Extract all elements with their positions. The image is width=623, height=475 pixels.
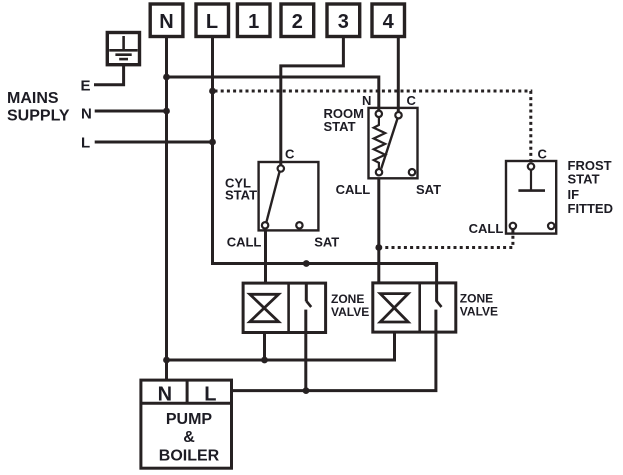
junction dot left valve switch to pump live xyxy=(303,387,310,394)
svg-text:MAINS: MAINS xyxy=(7,90,59,107)
frost stat U3 xyxy=(506,161,556,234)
label CYL STAT xyxy=(225,175,257,202)
junction dot left valve motor return xyxy=(261,357,268,364)
left zone valve V1 xyxy=(243,283,326,332)
cyl stat U1 xyxy=(259,162,319,230)
wire left valve motor to neutral return xyxy=(263,333,266,361)
label ROOM STAT xyxy=(324,106,364,134)
svg-text:SAT: SAT xyxy=(314,234,339,249)
svg-text:BOILER: BOILER xyxy=(159,447,220,464)
wire terminal 3 to cyl stat C xyxy=(281,37,344,166)
wire live from terminal L down and across to right zone valve switch xyxy=(213,37,437,302)
junction dot mains L xyxy=(209,139,216,146)
junction dot live to frost dotted xyxy=(209,88,216,95)
right zone valve V2 xyxy=(373,283,456,332)
svg-text:STAT: STAT xyxy=(568,172,600,187)
svg-text:CALL: CALL xyxy=(336,182,371,197)
wire right valve motor to neutral return xyxy=(167,332,395,360)
wire neutral from terminal N down to pump xyxy=(165,37,168,382)
terminal 2 box xyxy=(281,4,314,37)
svg-text:C: C xyxy=(407,93,417,108)
svg-text:C: C xyxy=(538,147,548,162)
svg-text:SUPPLY: SUPPLY xyxy=(7,108,70,125)
svg-text:PUMP: PUMP xyxy=(166,411,213,428)
junction dot neutral to room stat branch xyxy=(163,74,170,81)
svg-text:FITTED: FITTED xyxy=(568,201,614,216)
wire mains N xyxy=(95,110,167,113)
terminal 4 box xyxy=(372,4,405,37)
junction dot mains N xyxy=(163,108,170,115)
terminal 3 box xyxy=(327,4,360,37)
svg-text:N: N xyxy=(159,11,173,33)
svg-text:C: C xyxy=(285,147,295,162)
svg-text:2: 2 xyxy=(292,11,303,33)
svg-text:E: E xyxy=(81,78,91,95)
svg-text:STAT: STAT xyxy=(324,119,356,134)
wire room stat CALL to right zone valve motor xyxy=(377,178,380,283)
svg-text:VALVE: VALVE xyxy=(331,305,369,319)
svg-text:1: 1 xyxy=(248,11,259,33)
terminal N box xyxy=(150,4,183,37)
room stat U2 xyxy=(369,108,418,178)
terminal 1 box xyxy=(237,4,270,37)
svg-text:N: N xyxy=(81,106,92,123)
svg-text:N: N xyxy=(158,384,172,406)
label ZONE VALVE left xyxy=(331,292,369,319)
wire right valve switch down to pump live line xyxy=(232,332,436,391)
dotted wire live to frost stat C xyxy=(215,91,531,163)
earth symbol box xyxy=(107,33,139,65)
wire neutral branch to room stat N xyxy=(167,77,379,111)
junction dot frost call joins room call wire xyxy=(375,244,382,251)
svg-text:VALVE: VALVE xyxy=(460,304,498,318)
svg-text:L: L xyxy=(81,135,90,152)
junction dot live bus to left valve switch xyxy=(303,260,310,267)
label PUMP & BOILER xyxy=(159,411,220,464)
label ZONE VALVE right xyxy=(460,292,498,319)
wire terminal 4 to room stat C xyxy=(397,37,400,113)
wire left valve switch down to pump live line xyxy=(304,333,307,391)
dotted wire frost stat CALL to room stat call wire xyxy=(381,230,513,248)
wire cyl stat CALL to left zone valve motor xyxy=(264,230,267,283)
svg-text:&: & xyxy=(183,429,195,446)
wire mains L xyxy=(95,141,213,144)
svg-text:STAT: STAT xyxy=(225,187,257,202)
svg-text:SAT: SAT xyxy=(416,182,441,197)
svg-text:L: L xyxy=(206,11,218,33)
junction dot neutral to return line xyxy=(163,357,170,364)
svg-text:L: L xyxy=(204,384,216,406)
wire E to earth box xyxy=(94,65,124,85)
svg-text:3: 3 xyxy=(338,11,349,33)
svg-text:CALL: CALL xyxy=(227,234,262,249)
svg-text:ZONE: ZONE xyxy=(460,292,493,306)
terminal L box xyxy=(196,4,229,37)
label FROST STAT IF FITTED xyxy=(568,158,614,216)
svg-text:CALL: CALL xyxy=(469,221,504,236)
pump and boiler box xyxy=(141,380,232,468)
svg-text:4: 4 xyxy=(383,11,395,33)
label MAINS SUPPLY xyxy=(7,90,70,125)
